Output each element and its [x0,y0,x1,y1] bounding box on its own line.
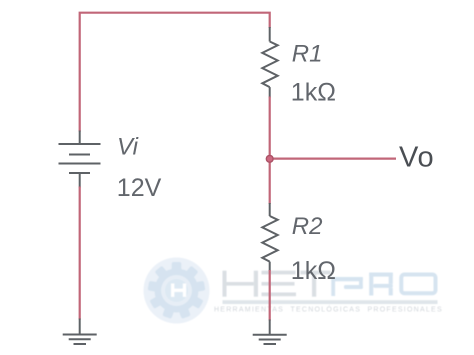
svg-text:12V: 12V [117,174,162,202]
watermark letter T [301,271,331,297]
ground right [253,335,287,344]
resistor R1 zigzag [262,42,277,88]
wire node to Vo [270,158,396,160]
watermark letter O [401,275,435,294]
resistor R2 top lead [269,203,271,216]
watermark letter P [331,277,363,296]
node Vo junction dot [266,155,273,162]
svg-text:Vo: Vo [399,141,434,173]
resistor R2 bottom lead [269,262,271,271]
wire R2 to right ground [269,270,271,321]
right ground lead [269,320,271,335]
resistor R1 top lead [269,27,271,42]
resistor R2 zigzag [262,216,277,262]
watermark letter H [223,271,259,297]
wire R1 to node [269,97,271,159]
watermark gear white H [171,284,186,297]
watermark underline bar [223,300,438,304]
wire battery to left ground [79,187,81,320]
svg-text:1kΩ: 1kΩ [291,79,336,107]
left ground lead [79,319,81,335]
svg-text:R1: R1 [292,41,323,68]
watermark gear glow circle [144,258,210,324]
battery Vi top lead [79,131,81,145]
battery Vi plates [59,144,101,173]
svg-text:R2: R2 [292,213,323,240]
svg-text:1kΩ: 1kΩ [291,257,336,285]
watermark gear rim annulus [155,269,199,313]
ground left [63,335,97,345]
svg-text:Vi: Vi [117,134,139,161]
watermark gear center disc [165,279,188,302]
svg-text:HERRAMIENTAS TECNOLÓGICAS PR: HERRAMIENTAS TECNOLÓGICAS PROFESIONALES [214,304,443,313]
watermark gear teeth [148,262,206,319]
wire Vi+ to R1 top (left vertical, top horizontal, corner) [80,13,270,132]
battery Vi bottom lead [79,173,81,188]
watermark letter E [262,271,297,297]
wire node to R2 [269,159,271,204]
watermark letter R [369,273,393,296]
resistor R1 bottom lead [269,87,271,97]
